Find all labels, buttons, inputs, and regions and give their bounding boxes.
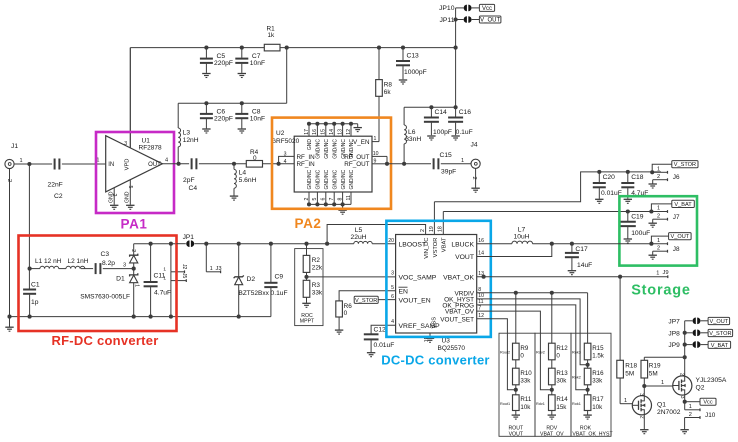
wire (477, 311, 552, 390)
svg-text:RF_OUT: RF_OUT (344, 154, 369, 161)
svg-text:16: 16 (478, 238, 484, 244)
inductor L2 (66, 258, 89, 269)
net label V_OUT (JP7) (708, 317, 730, 325)
inductor L4 (234, 164, 257, 196)
ground (649, 184, 657, 188)
svg-text:R3: R3 (312, 282, 321, 289)
node (683, 343, 687, 347)
svg-text:V_BAT: V_BAT (674, 202, 692, 208)
svg-text:PA2: PA2 (294, 216, 321, 231)
transistor Q2 YJL2305A (673, 373, 727, 399)
svg-text:3: 3 (284, 151, 287, 157)
svg-text:12: 12 (478, 313, 484, 319)
wire (477, 299, 588, 365)
node (649, 209, 653, 213)
capacitor C6 (200, 103, 233, 128)
svg-text:Rdv2: Rdv2 (536, 351, 545, 355)
connector J7 (651, 204, 680, 223)
wire (309, 124, 358, 136)
op-amp U1 RF2878 (96, 48, 168, 205)
jumper JP10 (439, 5, 479, 13)
svg-text:L5: L5 (355, 227, 363, 234)
svg-text:2: 2 (657, 174, 660, 180)
svg-text:10k: 10k (592, 404, 603, 411)
svg-text:1: 1 (210, 266, 213, 272)
svg-text:1: 1 (20, 158, 23, 164)
svg-text:5: 5 (391, 285, 394, 291)
svg-text:16: 16 (312, 129, 318, 135)
capacitor C1 (23, 282, 40, 317)
svg-text:1.5k: 1.5k (592, 353, 605, 360)
net label V_OUT (JP11) (479, 16, 501, 23)
ic U2 GRF5020 body (271, 130, 372, 192)
ground (338, 204, 346, 214)
pin VSTOR 19 (429, 202, 439, 258)
svg-text:11: 11 (346, 195, 352, 200)
ground (624, 239, 632, 243)
svg-text:8: 8 (337, 198, 343, 201)
wire (477, 276, 668, 278)
capacitor C12 (364, 327, 395, 353)
svg-text:LBUCK: LBUCK (451, 241, 474, 248)
node (683, 355, 687, 359)
block PA2 box (272, 118, 391, 209)
capacitor C15 (434, 152, 457, 176)
node (454, 46, 458, 50)
svg-text:7: 7 (329, 198, 335, 201)
svg-text:0.1uF: 0.1uF (456, 129, 473, 136)
block RF-DC box (19, 236, 177, 332)
svg-text:V_STOR: V_STOR (674, 162, 696, 168)
node (618, 275, 622, 279)
svg-text:Vcc: Vcc (703, 400, 713, 406)
capacitor C11 (144, 244, 172, 317)
svg-text:VBAT: VBAT (442, 237, 448, 252)
ground (624, 199, 632, 203)
svg-text:3: 3 (679, 396, 685, 399)
svg-text:IN: IN (108, 162, 114, 168)
svg-text:2: 2 (639, 416, 645, 419)
pin RF_IN 4 (284, 159, 316, 168)
inductor L1 (35, 258, 62, 269)
svg-text:1p: 1p (31, 299, 39, 306)
svg-text:20: 20 (388, 238, 394, 244)
wire (177, 103, 179, 128)
svg-text:JP9: JP9 (668, 342, 680, 349)
svg-text:1k: 1k (268, 32, 276, 39)
svg-text:VOUT_SET: VOUT_SET (440, 316, 474, 323)
capacitor C17 (565, 244, 592, 271)
pin VBAT_OK 13 (443, 271, 484, 281)
block ROK box (571, 333, 611, 436)
svg-text:1000pF: 1000pF (404, 69, 427, 76)
pin VOUT_EN 6 (391, 294, 431, 305)
connector J10 (685, 404, 716, 429)
svg-text:6k: 6k (384, 89, 392, 96)
svg-text:Rok1: Rok1 (572, 402, 581, 406)
svg-text:C14: C14 (435, 109, 448, 116)
svg-text:1: 1 (657, 238, 660, 244)
resistor R6 (336, 301, 352, 330)
svg-text:10nF: 10nF (250, 115, 265, 122)
capacitor C8 (235, 103, 265, 128)
svg-text:33k: 33k (520, 378, 531, 385)
wire (620, 398, 632, 404)
node (204, 101, 208, 105)
node (204, 242, 208, 246)
wire (263, 163, 295, 165)
node (402, 162, 406, 166)
pin OK_HYST 10 (444, 293, 484, 303)
wire (441, 158, 471, 164)
wire (309, 192, 351, 204)
power flag Vcc (JP10) (479, 4, 494, 11)
svg-text:2: 2 (130, 249, 136, 252)
svg-text:VBAT_OK: VBAT_OK (443, 274, 474, 281)
wire (62, 163, 106, 165)
svg-text:GND/NC: GND/NC (341, 169, 347, 189)
wire (455, 48, 457, 108)
svg-text:17: 17 (304, 129, 310, 135)
ground (649, 255, 657, 259)
pin VBAT_OV 7 (445, 305, 481, 315)
node (304, 275, 308, 279)
node (240, 46, 244, 50)
node (550, 242, 554, 246)
svg-text:C15: C15 (440, 152, 453, 159)
svg-text:1: 1 (163, 267, 166, 273)
svg-text:33k: 33k (592, 378, 603, 385)
pin VRDIV 8 (454, 287, 481, 297)
svg-text:1: 1 (661, 380, 664, 386)
wire (29, 163, 52, 165)
svg-text:VSTOR: VSTOR (433, 238, 439, 258)
svg-text:R9: R9 (520, 345, 528, 352)
svg-text:1: 1 (134, 284, 140, 287)
pin VOUT_SET 12 (440, 313, 484, 323)
connector J3 (206, 244, 221, 274)
svg-text:JP8: JP8 (668, 330, 680, 337)
svg-text:14: 14 (329, 129, 335, 135)
svg-text:D1: D1 (116, 275, 125, 282)
svg-text:1: 1 (656, 271, 659, 277)
svg-text:RF_IN: RF_IN (297, 161, 316, 168)
svg-text:SMS7630-005LF: SMS7630-005LF (80, 294, 130, 301)
inductor L6 (404, 107, 421, 164)
ground (202, 129, 210, 133)
wire (477, 305, 588, 390)
svg-text:39pF: 39pF (441, 169, 456, 176)
svg-text:22nF: 22nF (48, 182, 63, 189)
pin RF_OUT 9 (344, 158, 387, 168)
svg-text:5M: 5M (625, 370, 634, 377)
wire (130, 47, 264, 49)
pin RF_IN 3 (284, 151, 316, 161)
pin VOC_SAMP 3 (391, 271, 437, 282)
wire (280, 47, 456, 49)
svg-text:YJL2305A: YJL2305A (696, 377, 727, 384)
jumper JP11 (440, 16, 480, 24)
block Storage box (619, 196, 697, 265)
svg-text:2: 2 (657, 213, 660, 219)
svg-text:1: 1 (461, 158, 464, 164)
svg-text:J3: J3 (216, 266, 222, 272)
ground (5, 317, 13, 332)
node (325, 242, 329, 246)
svg-text:18: 18 (438, 226, 444, 232)
svg-text:J1: J1 (11, 143, 18, 150)
svg-text:GRF5020: GRF5020 (271, 138, 300, 145)
svg-text:VSS: VSS (432, 317, 438, 329)
net label V_STOR (VOUT_EN) (354, 296, 395, 304)
svg-text:L6: L6 (408, 129, 416, 136)
svg-text:JP7: JP7 (668, 318, 680, 325)
diode D1 SMS7630-005LF (80, 244, 139, 317)
svg-text:C1: C1 (31, 282, 40, 289)
node (683, 331, 687, 335)
svg-text:R15: R15 (592, 345, 604, 352)
svg-text:1: 1 (624, 398, 627, 404)
svg-text:V_OUT: V_OUT (671, 234, 690, 240)
svg-text:GND/NC: GND/NC (307, 169, 313, 189)
svg-text:33k: 33k (312, 289, 323, 296)
svg-text:L3: L3 (183, 130, 191, 137)
svg-text:2: 2 (678, 373, 684, 376)
svg-text:4: 4 (165, 158, 168, 164)
svg-text:4.7uF: 4.7uF (154, 290, 171, 297)
ground (230, 196, 238, 200)
connector J4 (471, 142, 481, 188)
svg-text:C2: C2 (54, 193, 63, 200)
wire (434, 172, 661, 202)
svg-text:220pF: 220pF (214, 115, 233, 122)
net label V_STOR (J6) (672, 161, 698, 169)
node (277, 162, 281, 166)
label ROC MPPT (300, 313, 315, 325)
svg-text:11: 11 (478, 299, 483, 305)
inductor L5 (327, 227, 396, 244)
svg-text:13: 13 (337, 129, 343, 135)
wire (170, 272, 172, 317)
node (626, 209, 630, 213)
svg-text:RF_IN: RF_IN (297, 154, 316, 161)
node (27, 162, 31, 166)
svg-text:C9: C9 (275, 274, 284, 281)
wire (59, 268, 66, 270)
svg-text:L4: L4 (239, 170, 247, 177)
svg-text:J10: J10 (705, 412, 716, 419)
resistor R8 (376, 48, 393, 142)
svg-text:J4: J4 (471, 142, 478, 149)
pin RF_OUT 10 (344, 151, 387, 161)
node (642, 384, 646, 388)
svg-text:U1: U1 (142, 138, 151, 145)
node (454, 105, 458, 109)
pin OK_PROG 11 (442, 299, 483, 309)
svg-text:BQ25570: BQ25570 (438, 345, 466, 352)
resistor R19 (641, 357, 661, 395)
svg-text:8.2p: 8.2p (102, 260, 115, 267)
node (586, 388, 590, 392)
svg-text:V_OUT: V_OUT (710, 319, 729, 325)
inductor L3 (178, 128, 199, 164)
pin V_EN 1 (353, 136, 379, 146)
node (177, 162, 181, 166)
svg-text:2N7002: 2N7002 (657, 409, 681, 416)
resistor R18 (617, 277, 638, 404)
transistor Q1 2N7002 (632, 393, 680, 419)
svg-text:15: 15 (321, 129, 327, 135)
ic U3 BQ25570 body (396, 235, 477, 353)
svg-text:VOUT: VOUT (509, 432, 524, 438)
wire (28, 164, 30, 269)
wire (643, 415, 645, 429)
svg-text:VBAT_OV: VBAT_OV (445, 309, 475, 316)
svg-text:BZT52Bxx: BZT52Bxx (239, 290, 270, 297)
net label V_BAT (J7) (672, 200, 695, 208)
wire (103, 263, 134, 269)
block ROUT box (499, 333, 535, 436)
svg-text:OUT: OUT (148, 162, 161, 168)
resistors R9 R10 R11 (500, 343, 532, 437)
capacitor C20 (593, 172, 622, 199)
wire (515, 293, 517, 343)
wire (386, 156, 388, 163)
svg-text:RF2878: RF2878 (139, 145, 163, 152)
ground (126, 205, 134, 209)
svg-text:1: 1 (657, 206, 660, 212)
capacitor C7 (235, 48, 265, 73)
svg-text:Rout1: Rout1 (500, 402, 510, 406)
svg-text:GND: GND (125, 191, 131, 203)
svg-text:C18: C18 (631, 174, 644, 181)
svg-text:VOC_SAMP: VOC_SAMP (399, 274, 437, 281)
diode D2 BZT52Bxx (234, 244, 270, 317)
svg-text:2: 2 (420, 229, 426, 232)
svg-text:0.01uF: 0.01uF (374, 342, 395, 349)
svg-text:3: 3 (124, 141, 127, 147)
svg-text:GND: GND (307, 139, 313, 151)
svg-text:2pF: 2pF (183, 177, 195, 184)
svg-text:C19: C19 (631, 214, 644, 221)
wire (30, 268, 40, 270)
svg-text:Vcc: Vcc (482, 6, 492, 12)
net label V_STOR (JP8) (708, 329, 733, 337)
svg-text:2: 2 (6, 179, 12, 182)
ground (595, 199, 603, 203)
svg-text:V_EN: V_EN (353, 139, 370, 146)
svg-text:10uH: 10uH (514, 233, 530, 240)
svg-text:R19: R19 (649, 363, 661, 370)
wire (206, 243, 327, 245)
inductor L7 (512, 227, 533, 244)
svg-text:3: 3 (638, 393, 644, 396)
svg-text:VIN_DC: VIN_DC (424, 238, 430, 259)
svg-text:DC-DC converter: DC-DC converter (381, 353, 490, 368)
svg-text:R13: R13 (556, 370, 568, 377)
svg-text:VBAT_OK_HYST: VBAT_OK_HYST (572, 432, 613, 438)
connector J1 (5, 143, 30, 317)
svg-text:C12: C12 (374, 327, 387, 334)
wire (178, 102, 287, 104)
pin LBOOST 20 (388, 238, 426, 249)
wire (477, 293, 588, 343)
svg-text:R11: R11 (520, 396, 531, 403)
svg-text:PA1: PA1 (120, 217, 147, 232)
svg-text:GND/NC: GND/NC (349, 169, 355, 189)
svg-text:Rdv1: Rdv1 (536, 402, 545, 406)
svg-text:220pF: 220pF (214, 60, 233, 67)
node (304, 242, 308, 246)
node (269, 242, 273, 246)
wire (81, 268, 93, 270)
svg-text:2: 2 (304, 198, 310, 201)
svg-text:4: 4 (391, 319, 394, 325)
svg-text:R18: R18 (625, 363, 637, 370)
svg-text:V_STOR: V_STOR (709, 331, 731, 337)
wire (684, 321, 686, 358)
svg-text:1: 1 (374, 136, 377, 142)
svg-text:GND/NC: GND/NC (316, 169, 322, 189)
wire (170, 244, 172, 272)
svg-text:C3: C3 (101, 251, 110, 258)
svg-text:GND/NC: GND/NC (324, 169, 330, 189)
pin EN 5 (391, 285, 408, 296)
wire (684, 395, 686, 410)
svg-text:R14: R14 (556, 396, 568, 403)
wire (387, 163, 431, 165)
node (550, 388, 554, 392)
jumper JP1 (177, 234, 207, 247)
svg-text:VBAT_OV: VBAT_OV (540, 432, 564, 438)
wire (10, 316, 271, 318)
svg-text:EN: EN (399, 289, 409, 296)
svg-text:R12: R12 (556, 345, 568, 352)
connector J8 (651, 236, 680, 255)
pin VBAT 18 (438, 212, 448, 253)
node (626, 170, 630, 174)
wire (129, 48, 131, 149)
node (550, 291, 554, 295)
svg-text:2: 2 (657, 245, 660, 251)
ground (399, 80, 407, 84)
svg-text:R17: R17 (592, 396, 604, 403)
ground (649, 223, 657, 227)
svg-text:VOUT: VOUT (455, 254, 474, 261)
svg-text:L1 12 nH: L1 12 nH (35, 258, 62, 265)
wire (443, 211, 651, 213)
svg-text:4: 4 (284, 159, 287, 165)
block DC-DC box (386, 221, 490, 337)
svg-text:Rok3: Rok3 (572, 351, 581, 355)
svg-text:R6: R6 (344, 303, 353, 310)
svg-text:12nH: 12nH (183, 137, 199, 144)
wire (134, 243, 177, 245)
node (285, 46, 289, 50)
ground (238, 74, 246, 78)
svg-text:C13: C13 (407, 53, 420, 60)
svg-text:V_OUT: V_OUT (480, 17, 500, 23)
ground (427, 136, 435, 140)
svg-text:V_BAT: V_BAT (711, 343, 729, 349)
svg-text:2: 2 (111, 194, 117, 197)
capacitor C18 (621, 172, 648, 199)
svg-text:5M: 5M (649, 370, 658, 377)
svg-text:GND/NC: GND/NC (324, 139, 330, 159)
svg-text:10nF: 10nF (250, 60, 265, 67)
ground (354, 124, 362, 132)
svg-text:5: 5 (127, 186, 133, 189)
